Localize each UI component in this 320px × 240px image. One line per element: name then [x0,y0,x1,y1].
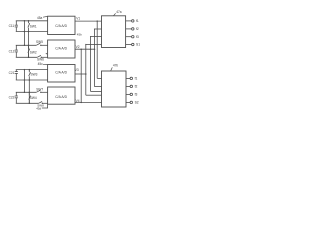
svg-text:C/A A/D: C/A A/D [55,70,67,74]
svg-text:V4: V4 [76,99,80,103]
svg-text:S1: S1 [136,43,140,47]
svg-text:f2: f2 [136,27,139,31]
svg-text:45b: 45b [77,33,82,37]
svg-text:f3: f3 [136,35,139,39]
svg-text:V2: V2 [76,45,80,49]
svg-text:C/A A/D: C/A A/D [55,95,67,99]
svg-text:C11: C11 [9,24,15,28]
svg-text:45c: 45c [38,62,44,66]
svg-text:f2: f2 [135,85,138,89]
svg-text:f3: f3 [135,93,138,97]
svg-text:C/A A/D: C/A A/D [55,46,67,50]
svg-text:C12: C12 [9,49,15,53]
svg-text:C/A A/D: C/A A/D [55,24,67,28]
svg-text:SW2: SW2 [30,50,37,54]
svg-text:SW5: SW5 [36,40,43,44]
svg-text:SW4: SW4 [30,96,37,100]
svg-text:V3: V3 [75,68,79,72]
svg-text:S2: S2 [135,101,139,105]
svg-text:C22: C22 [9,96,15,100]
svg-text:C21: C21 [9,71,15,75]
svg-text:V1: V1 [76,16,80,20]
svg-text:f1: f1 [135,77,138,81]
svg-text:45a: 45a [37,16,43,20]
svg-text:47a: 47a [116,10,122,14]
svg-text:45d: 45d [36,106,41,110]
svg-text:SW1: SW1 [30,25,37,29]
svg-text:47b: 47b [113,63,119,67]
svg-text:SW3: SW3 [31,72,38,76]
svg-text:f1: f1 [136,19,139,23]
svg-text:SW7: SW7 [36,88,43,92]
